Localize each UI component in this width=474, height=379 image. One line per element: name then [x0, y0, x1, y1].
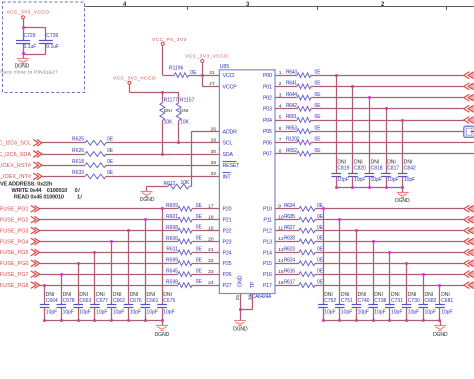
- svg-text:10pF: 10pF: [341, 309, 352, 315]
- off-page connector EFUSE_PG7: [31, 271, 40, 278]
- svg-text:DGND: DGND: [233, 327, 248, 333]
- svg-text:P14: P14: [263, 250, 272, 256]
- resistor R628: [284, 236, 324, 244]
- wire C_IOEX_INT# to resistor: [42, 176, 85, 178]
- svg-text:0E: 0E: [317, 279, 324, 285]
- svg-text:R651: R651: [286, 114, 297, 120]
- svg-text:C_IOEX_RST#: C_IOEX_RST#: [0, 163, 31, 169]
- resistor R625: [72, 137, 114, 146]
- resistor R633: [72, 170, 114, 179]
- resistor R608: [166, 225, 202, 233]
- pin number 20: [208, 236, 214, 242]
- svg-text:0E: 0E: [107, 159, 114, 165]
- svg-text:C677: C677: [96, 298, 108, 304]
- svg-text:DGND: DGND: [395, 198, 410, 204]
- U85 GND pin name: [238, 275, 244, 287]
- wire U85 P13 to resistor: [275, 241, 299, 243]
- svg-text:R599: R599: [166, 258, 178, 264]
- junction bus C738: [372, 319, 375, 322]
- resistor R609: [166, 203, 202, 211]
- svg-text:10pF: 10pF: [337, 177, 348, 183]
- off-page connector EFUSE_PG4: [31, 238, 40, 245]
- svg-text:GND: GND: [238, 275, 244, 287]
- svg-text:0E: 0E: [196, 225, 203, 231]
- resistor R599: [166, 257, 202, 265]
- svg-text:10pF: 10pF: [163, 309, 174, 315]
- svg-text:R626: R626: [72, 148, 84, 154]
- svg-text:20: 20: [208, 236, 214, 242]
- svg-text:26: 26: [211, 126, 217, 132]
- wire EFUSE_PG2 to resistor: [40, 219, 178, 221]
- svg-text:WRITE 0x44: WRITE 0x44: [11, 188, 42, 194]
- pin number 25: [235, 295, 241, 301]
- svg-text:EFUSE_PG7: EFUSE_PG7: [0, 272, 29, 278]
- wire R628 to edge: [315, 241, 464, 243]
- junction node bottom: [22, 52, 25, 55]
- svg-text:VCCP: VCCP: [223, 84, 238, 90]
- svg-text:10pF: 10pF: [441, 309, 452, 315]
- capacitor C730: [402, 263, 412, 321]
- svg-text:R641: R641: [286, 81, 297, 87]
- svg-text:P00: P00: [263, 73, 272, 79]
- svg-text:P02: P02: [263, 96, 272, 102]
- label C842: [404, 166, 416, 184]
- resistor R651: [286, 114, 321, 122]
- power symbol VCC_3V3_VCCO (pullups): [113, 75, 156, 84]
- off-page connector P11 net: [464, 216, 474, 223]
- resistor R634: [284, 203, 324, 211]
- wire R642 to edge: [311, 108, 464, 110]
- on-page connector box: [464, 126, 474, 137]
- label DNI C820: [354, 160, 363, 166]
- wire bus to DGND left: [162, 321, 164, 325]
- wire R633 to U85: [106, 176, 219, 178]
- svg-text:R601: R601: [166, 214, 178, 220]
- off-page connector P16 net: [464, 271, 474, 278]
- svg-text:0100010: 0100010: [47, 188, 67, 194]
- junction bus C676: [127, 319, 130, 322]
- wire upper cap bus: [336, 187, 402, 189]
- svg-text:10pF: 10pF: [358, 309, 369, 315]
- junction EFUSE_PG2 cap tap: [144, 218, 147, 221]
- wire R626 to U85: [106, 154, 219, 156]
- off-page connector EFUSE_PG5: [31, 249, 40, 256]
- junction bus C675: [161, 319, 164, 322]
- resistor R598: [166, 279, 202, 287]
- resistor R642: [286, 103, 321, 111]
- wire R617 to edge: [315, 285, 464, 287]
- svg-text:5: 5: [279, 115, 282, 121]
- svg-text:C664: C664: [46, 298, 58, 304]
- off-page connector P13 net: [464, 238, 474, 245]
- wire EFUSE_PG8 to resistor: [40, 285, 178, 287]
- svg-text:P05: P05: [263, 129, 272, 135]
- svg-text:P20: P20: [223, 207, 232, 213]
- wire U85 P07 to resistor: [275, 153, 297, 155]
- svg-text:R625: R625: [72, 137, 84, 143]
- svg-text:EFUSE_PG8: EFUSE_PG8: [0, 283, 29, 289]
- power symbol VCC_3V3_VCCO (U85): [185, 54, 228, 63]
- label DNI C661: [147, 292, 156, 298]
- svg-text:10pF: 10pF: [147, 309, 158, 315]
- capacitor C677: [90, 252, 100, 320]
- wire R598 to U85: [192, 285, 219, 287]
- svg-text:P23: P23: [223, 239, 232, 245]
- junction bus C678: [60, 319, 63, 322]
- label TCA6424A: [249, 294, 272, 300]
- junction bus C817: [385, 186, 388, 189]
- svg-text:1/: 1/: [77, 194, 82, 200]
- node EFUSE_PG7: [0, 272, 29, 278]
- U85 right pin names: [263, 73, 272, 289]
- wire R645 to U85: [192, 274, 219, 276]
- junction P16 cap tap: [422, 273, 425, 276]
- junction bus C731: [388, 319, 391, 322]
- svg-text:C681: C681: [441, 298, 453, 304]
- capacitor C682: [418, 274, 428, 321]
- off-page connector EFUSE_PG8: [31, 282, 40, 289]
- wire TP pin: [240, 294, 253, 310]
- svg-text:R616: R616: [284, 268, 295, 274]
- resistor R1202: [286, 137, 321, 145]
- svg-text:P17: P17: [263, 283, 272, 289]
- ground DGND (R612): [140, 192, 155, 204]
- svg-text:R627: R627: [284, 225, 295, 231]
- wire R612 to ground: [147, 187, 169, 192]
- svg-text:C819: C819: [337, 166, 349, 172]
- off-page connector P14 net: [464, 249, 474, 256]
- off-page connector C_I2C6_SDA: [33, 151, 42, 158]
- resistor R627: [284, 225, 324, 233]
- wire C_IOEX_RST# to resistor: [42, 165, 85, 167]
- wire bus to DGND right: [440, 321, 442, 325]
- pin number 24: [208, 280, 214, 286]
- pin number 3: [279, 92, 282, 98]
- svg-text:0E: 0E: [196, 257, 203, 263]
- svg-text:10pF: 10pF: [96, 309, 107, 315]
- pin number 27: [209, 81, 215, 87]
- junction bus C740: [355, 319, 358, 322]
- svg-text:10pF: 10pF: [46, 309, 57, 315]
- border zone tick x187: [187, 7, 189, 11]
- svg-text:EFUSE_PG1: EFUSE_PG1: [0, 207, 29, 213]
- pin number 19: [208, 225, 214, 231]
- svg-text:R624: R624: [284, 258, 295, 264]
- svg-text:P25: P25: [223, 261, 232, 267]
- svg-text:0x45 0100010: 0x45 0100010: [30, 194, 63, 200]
- svg-text:0E: 0E: [196, 236, 203, 242]
- pin number 12: [278, 236, 284, 242]
- svg-text:C820: C820: [354, 166, 366, 172]
- svg-text:VCC_3V3_VCCO: VCC_3V3_VCCO: [113, 75, 156, 81]
- wire R609 to U85: [192, 208, 219, 210]
- wire R634 to edge: [315, 208, 464, 210]
- svg-text:R608: R608: [166, 225, 178, 231]
- junction P12 cap tap: [355, 229, 358, 232]
- U85 TP pin name: [250, 281, 256, 288]
- svg-text:P11: P11: [263, 218, 272, 224]
- junction at VCCI: [201, 74, 204, 77]
- svg-text:10pF: 10pF: [63, 309, 74, 315]
- svg-text:C731: C731: [391, 298, 403, 304]
- off-page connector EFUSE_PG3: [31, 227, 40, 234]
- pin number 2: [279, 81, 282, 87]
- node EFUSE_PG1: [0, 207, 29, 213]
- capacitor C681: [435, 285, 445, 321]
- border zone label 3: [246, 2, 250, 8]
- capacitor C664: [40, 285, 50, 321]
- resistor R600: [166, 236, 202, 244]
- svg-text:C661: C661: [147, 298, 159, 304]
- pin number 32: [211, 171, 217, 177]
- resistor R618: [72, 159, 114, 168]
- pin number 33: [248, 295, 254, 301]
- pin number 9: [278, 204, 281, 210]
- junction bus C752: [322, 319, 325, 322]
- svg-text:C_I2C6_SDA: C_I2C6_SDA: [0, 152, 31, 158]
- power symbol VCC_3V3_VCCO (decoupling): [7, 9, 50, 18]
- svg-text:P13: P13: [263, 239, 272, 245]
- capacitor C818: [365, 98, 375, 188]
- svg-text:0.1uF: 0.1uF: [46, 44, 59, 50]
- svg-text:0E: 0E: [315, 81, 322, 87]
- svg-text:R609: R609: [166, 203, 178, 209]
- label DNI R1157: [180, 108, 188, 114]
- svg-text:0E: 0E: [196, 247, 203, 253]
- wire U85 P11 to resistor: [275, 219, 299, 221]
- wire U85 P14 to resistor: [275, 252, 299, 254]
- svg-text:32: 32: [211, 171, 217, 177]
- wire U85 P00 to resistor: [275, 75, 297, 77]
- resistor R612: [164, 180, 191, 189]
- label DNI R1177: [164, 108, 172, 114]
- wire U85 P10 to resistor: [275, 208, 299, 210]
- capacitor C675: [157, 209, 167, 321]
- resistor R652: [286, 148, 321, 156]
- svg-text:10K: 10K: [164, 119, 174, 125]
- svg-text:R635: R635: [284, 214, 295, 220]
- label DNI C817: [387, 160, 396, 166]
- svg-text:R617: R617: [284, 279, 295, 285]
- capacitor C739: [39, 33, 59, 50]
- svg-text:10K: 10K: [180, 119, 190, 125]
- svg-text:P26: P26: [223, 272, 232, 278]
- svg-text:RESET: RESET: [223, 163, 241, 169]
- svg-text:29: 29: [211, 138, 217, 144]
- pin number 1: [279, 70, 282, 76]
- svg-text:VCC_3V3_VCCO: VCC_3V3_VCCO: [185, 54, 228, 60]
- svg-text:C_I2C6_SCL: C_I2C6_SCL: [0, 141, 31, 147]
- wire EFUSE_PG4 to resistor: [40, 241, 178, 243]
- svg-text:0E: 0E: [317, 236, 324, 242]
- sheet top border line: [85, 6, 474, 8]
- svg-text:10pF: 10pF: [404, 177, 415, 183]
- svg-text:DNI: DNI: [180, 108, 188, 114]
- capacitor C820: [348, 86, 358, 187]
- svg-text:10pF: 10pF: [425, 309, 436, 315]
- junction bus C664: [43, 319, 46, 322]
- pin number 31: [209, 70, 215, 76]
- svg-text:23: 23: [208, 269, 214, 275]
- label C675: [163, 298, 175, 316]
- svg-text:0E: 0E: [317, 268, 324, 274]
- resistor R611: [166, 247, 202, 255]
- junction EFUSE_PG1 cap tap: [161, 207, 164, 210]
- note slave address line3: [14, 194, 83, 200]
- label DNI C751: [341, 292, 350, 298]
- junction EFUSE_PG7 cap tap: [60, 273, 63, 276]
- off-page connector EFUSE_PG1: [31, 206, 40, 213]
- pin number 30: [211, 149, 217, 155]
- wire R627 to edge: [315, 230, 464, 232]
- off-page connector P15 net: [464, 260, 474, 267]
- node EFUSE_PG8: [0, 283, 29, 289]
- svg-text:P06: P06: [263, 140, 272, 146]
- pin number 13: [278, 247, 284, 253]
- ground DGND (decoupling): [15, 59, 30, 70]
- svg-text:R634: R634: [284, 203, 295, 209]
- svg-text:10pF: 10pF: [79, 309, 90, 315]
- label DNI C752: [324, 292, 333, 298]
- label C730: [408, 298, 420, 316]
- wire power to junction: [23, 19, 25, 28]
- junction EFUSE_PG5 cap tap: [93, 251, 96, 254]
- svg-text:U85: U85: [220, 64, 230, 70]
- border zone tick x446: [446, 7, 448, 11]
- off-page connector P12 net: [464, 227, 474, 234]
- label C738: [374, 298, 386, 316]
- svg-text:R611: R611: [166, 247, 178, 253]
- wire R601 to U85: [192, 219, 219, 221]
- svg-text:EFUSE_PG6: EFUSE_PG6: [0, 261, 29, 267]
- junction bus C820: [351, 186, 354, 189]
- label C677: [96, 298, 108, 316]
- wire VCCO down to VCCP pin27: [202, 63, 219, 87]
- wire U85 P17 to resistor: [275, 285, 299, 287]
- svg-text:10pF: 10pF: [113, 309, 124, 315]
- resistor R626: [72, 148, 114, 157]
- wire R624 to edge: [315, 263, 464, 265]
- capacitor C662: [107, 242, 117, 321]
- wire EFUSE_PG1 to resistor: [40, 208, 178, 210]
- svg-text:C818: C818: [371, 166, 383, 172]
- svg-text:R623: R623: [284, 247, 295, 253]
- pin number 14: [278, 258, 284, 264]
- off-page connector EFUSE_PG6: [31, 260, 40, 267]
- svg-text:R652: R652: [286, 148, 297, 154]
- svg-text:P15: P15: [263, 261, 272, 267]
- pin number 18: [208, 215, 214, 221]
- off-page connector C_IOEX_RST#: [33, 162, 42, 169]
- junction EFUSE_PG8 cap tap: [43, 284, 46, 287]
- svg-text:C752: C752: [324, 298, 336, 304]
- svg-text:Place close to PIN31&27: Place close to PIN31&27: [0, 69, 58, 74]
- junction bus C681: [438, 319, 441, 322]
- svg-text:R1157: R1157: [180, 98, 195, 104]
- label U85: [220, 64, 230, 70]
- svg-text:C817: C817: [387, 166, 399, 172]
- junction pullup rail: [161, 91, 164, 94]
- wire R618 to U85: [106, 165, 219, 167]
- svg-text:INT: INT: [223, 174, 232, 180]
- wire R653 to connector: [311, 131, 464, 133]
- svg-text:C682: C682: [425, 298, 437, 304]
- svg-text:30: 30: [211, 149, 217, 155]
- wire EFUSE_PG5 to resistor: [40, 252, 178, 254]
- wire R623 to edge: [315, 252, 464, 254]
- svg-text:P01: P01: [263, 84, 272, 90]
- junction GND-TP: [239, 308, 242, 311]
- svg-text:C842: C842: [404, 166, 416, 172]
- svg-text:VCCI: VCCI: [223, 73, 235, 79]
- svg-text:10pF: 10pF: [391, 309, 402, 315]
- junction EFUSE_PG6 cap tap: [77, 262, 80, 265]
- ground DGND (U85): [233, 321, 248, 333]
- resistor R644: [286, 92, 321, 100]
- junction EFUSE_PG4 cap tap: [110, 240, 113, 243]
- capacitor C751: [335, 220, 345, 321]
- svg-text:18: 18: [208, 215, 214, 221]
- wire R652 to edge: [311, 153, 474, 155]
- ground DGND (right bank): [433, 326, 448, 339]
- junction P04 cap tap: [401, 119, 404, 122]
- junction P14 cap tap: [388, 251, 391, 254]
- pin number 5: [279, 115, 282, 121]
- svg-text:10pF: 10pF: [371, 177, 382, 183]
- resistor R641: [286, 81, 321, 89]
- label DNI C677: [96, 292, 105, 298]
- svg-text:10pF: 10pF: [387, 177, 398, 183]
- svg-text:DGND: DGND: [433, 332, 448, 338]
- svg-text:R653: R653: [286, 125, 297, 131]
- label C663: [79, 298, 91, 316]
- wire R616 to edge: [315, 274, 464, 276]
- wire R651 to edge: [311, 120, 464, 122]
- svg-text:0E: 0E: [315, 114, 322, 120]
- svg-text:0E: 0E: [315, 137, 322, 143]
- off-page connector P04 net: [464, 117, 474, 124]
- wire R635 to edge: [315, 219, 464, 221]
- U85 left pin names: [223, 73, 241, 289]
- resistor R601: [166, 214, 202, 222]
- resistor R1196: [169, 65, 197, 77]
- wire R643 to edge: [311, 75, 464, 77]
- junction P15 cap tap: [405, 262, 408, 265]
- node EFUSE_PG2: [0, 218, 29, 224]
- junction bus C730: [405, 319, 408, 322]
- svg-text:10K: 10K: [181, 180, 191, 186]
- capacitor C738: [368, 242, 378, 321]
- svg-text:P07: P07: [263, 152, 272, 158]
- svg-text:C662: C662: [113, 298, 125, 304]
- svg-text:0E: 0E: [317, 258, 324, 264]
- off-page connector P10 net: [464, 205, 474, 212]
- svg-text:C663: C663: [79, 298, 91, 304]
- label DNI C664: [46, 292, 55, 298]
- svg-text:P16: P16: [263, 272, 272, 278]
- wire ADDR: [190, 132, 220, 187]
- label C682: [425, 298, 437, 316]
- svg-text:VE ADDRESS: 0x22h: VE ADDRESS: 0x22h: [0, 182, 53, 188]
- wire R1202 to edge: [311, 142, 474, 144]
- label C678: [63, 298, 75, 316]
- pin number 11: [278, 225, 283, 231]
- capacitor C752: [318, 209, 328, 321]
- pin number 7: [279, 137, 282, 143]
- svg-text:C730: C730: [408, 298, 420, 304]
- pin number 23: [208, 269, 214, 275]
- border zone tick x317: [317, 7, 319, 11]
